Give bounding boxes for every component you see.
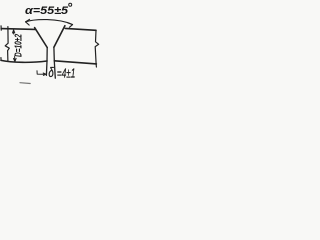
- right plate top edge: [65, 28, 96, 30]
- svg-text:α=55±5: α=55±5: [25, 5, 69, 17]
- left break line (zigzag): [5, 27, 9, 62]
- right groove face: [54, 26, 65, 48]
- top edge left end hook: [0, 26, 2, 30]
- degree symbol: [69, 3, 72, 6]
- left groove face: [35, 28, 48, 48]
- svg-text:δ: δ: [48, 65, 54, 80]
- arc left arrowhead: [26, 19, 30, 25]
- left plate top edge: [1, 28, 35, 31]
- svg-text:=4±1: =4±1: [57, 65, 76, 80]
- root gap right line + extension bar: [54, 47, 55, 78]
- paper background: [0, 0, 101, 86]
- left dimension top arrow: [13, 30, 15, 34]
- left dimension bottom arrow: [14, 57, 17, 62]
- right break line (zigzag): [95, 30, 99, 67]
- bottom edge left end hook: [0, 58, 2, 61]
- arc right arrowhead: [68, 23, 73, 28]
- angle dimension arc: [26, 20, 73, 25]
- gap dimension leader arrow: [37, 71, 46, 76]
- svg-text:D=10±2: D=10±2: [13, 34, 24, 57]
- root gap left line + extension bar: [45, 48, 48, 76]
- stray pencil dash (scan artifact): [20, 82, 30, 85]
- left plate bottom edge: [1, 60, 47, 62]
- right plate bottom edge: [54, 61, 96, 64]
